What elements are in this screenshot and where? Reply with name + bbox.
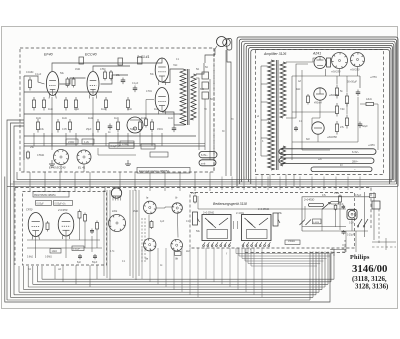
- svg-text:+6V/250: +6V/250: [329, 93, 339, 97]
- wire right verticals motor area: [364, 192, 366, 237]
- wire EL41 cathode drops: [146, 99, 154, 101]
- heater rail 6.3V busbar: [279, 149, 376, 155]
- mains switch contacts right: [358, 219, 362, 226]
- svg-text:150Ω: 150Ω: [157, 128, 163, 131]
- svg-text:1kΩ: 1kΩ: [62, 116, 67, 120]
- contact strip left: [203, 245, 205, 247]
- mains transformer T2 heater windings: [280, 146, 285, 166]
- svg-text:0.05µF: 0.05µF: [37, 203, 45, 205]
- tube V2 ECC40: [87, 72, 99, 96]
- power unit enclosure (dashed): [256, 50, 384, 175]
- svg-text:(3118, 3126,: (3118, 3126,: [352, 276, 387, 283]
- svg-text:1kΩ: 1kΩ: [114, 116, 119, 120]
- capacitor C4 electrolytic: [173, 126, 175, 129]
- svg-text:1kΩ: 1kΩ: [48, 107, 53, 111]
- svg-text:1kΩ: 1kΩ: [154, 107, 159, 111]
- svg-text:IIb: IIb: [175, 257, 179, 261]
- svg-text:800: 800: [200, 88, 205, 91]
- resistor EL41 cathode: [145, 117, 147, 119]
- svg-text:2×100k: 2×100k: [236, 212, 245, 215]
- resistor between wafers: [151, 220, 153, 222]
- amplifier chassis enclosure (dashed): [20, 48, 214, 172]
- svg-text:170Ω: 170Ω: [146, 90, 152, 93]
- svg-text:0.05M: 0.05M: [313, 222, 319, 224]
- output tap box 3: [202, 92, 209, 99]
- svg-text:0.1µF µF: 0.1µF µF: [111, 145, 121, 148]
- record changer outer enclosure (dashed): [15, 188, 371, 266]
- resistor R pot right: [339, 195, 341, 197]
- resistor R grid leak: [96, 221, 98, 223]
- electrolytic C6 32uF: [359, 122, 361, 125]
- tube socket S3 (AZ41 base): [332, 53, 348, 69]
- wire centre tap: [301, 70, 303, 150]
- cable plug P2: [111, 188, 121, 198]
- svg-text:1kΩ: 1kΩ: [88, 116, 93, 120]
- preamp label strip: [33, 192, 69, 198]
- wire HT secondary to rectifier: [286, 58, 317, 62]
- pickup preamp enclosure (dashed): [23, 192, 107, 266]
- wire HT rail top: [52, 58, 162, 72]
- wire bottom loom horizontals: [42, 278, 334, 280]
- svg-text:1kΩ: 1kΩ: [168, 116, 173, 120]
- speed switch left: [300, 220, 306, 226]
- loudspeaker jack P1: [217, 37, 227, 47]
- resistor box 14k: [50, 249, 61, 254]
- mains transformer T2 core: [276, 60, 278, 170]
- resistor R pot left: [194, 195, 196, 197]
- svg-text:A: A: [256, 114, 259, 118]
- svg-text:1µF: 1µF: [160, 220, 165, 223]
- wire transformer leads: [162, 69, 183, 83]
- svg-text:25µF: 25µF: [86, 128, 92, 131]
- svg-text:0.2V: 0.2V: [349, 223, 354, 225]
- svg-text:7kΩ: 7kΩ: [173, 64, 178, 67]
- mains transformer T2 primary: [268, 60, 275, 170]
- svg-text:0.5M: 0.5M: [334, 193, 339, 195]
- resistor R screen: [84, 213, 86, 215]
- wire loom fan drops (from control unit): [141, 248, 143, 279]
- tube socket S4 base: [351, 53, 365, 67]
- svg-text:0.02µF: 0.02µF: [73, 249, 81, 251]
- switch levers left: [205, 218, 213, 225]
- resistor row R7..R13: [37, 119, 39, 122]
- connector lug 6.3V (chassis A): [199, 152, 217, 158]
- capacitor C3: [109, 124, 111, 127]
- electrolytic can (chassis A): [127, 117, 143, 133]
- svg-text:1kΩ: 1kΩ: [36, 116, 41, 120]
- resistor R anode V6: [79, 210, 81, 212]
- svg-text:a+b: a+b: [201, 162, 206, 165]
- potentiometer P right: [273, 213, 278, 226]
- svg-text:ECC40: ECC40: [85, 53, 97, 57]
- svg-text:1kΩ: 1kΩ: [141, 116, 146, 120]
- wire bus branch down: [104, 186, 106, 192]
- junction cross on dashed bottom: [333, 249, 335, 256]
- wire drops power unit to bus: [261, 175, 263, 187]
- svg-text:0.25µF: 0.25µF: [347, 235, 355, 237]
- output tap box 2: [202, 82, 209, 89]
- svg-text:28V~: 28V~: [352, 159, 359, 163]
- mains transformer T2 HT secondary: [280, 62, 286, 118]
- output transformer T1 primary: [180, 69, 186, 125]
- wire sockets to rails: [339, 69, 341, 77]
- value box 2: [54, 201, 73, 206]
- svg-text:3146/00: 3146/00: [352, 263, 387, 275]
- electrolytic 8uF: [79, 254, 81, 256]
- svg-text:4V: 4V: [340, 165, 343, 167]
- motor M: [347, 209, 357, 219]
- wire bus line D: [7, 185, 398, 187]
- tube socket S1 (EF40/ECC40 base view): [54, 150, 69, 165]
- wire left riser bundle: [7, 120, 24, 300]
- svg-text:2×1400Ω: 2×1400Ω: [303, 199, 314, 202]
- wire bus line B: [13, 181, 395, 183]
- wire control unit top rail: [198, 208, 346, 210]
- ground chassis 2: [127, 160, 129, 164]
- wire loom left corner risers (to preamp bottom): [41, 266, 43, 279]
- indicator +6V/250 circle (upper): [314, 88, 326, 100]
- svg-text:Bedienungsgerät 3118: Bedienungsgerät 3118: [213, 202, 247, 206]
- switch wafer Ia: [144, 201, 157, 214]
- svg-text:47pF: 47pF: [338, 204, 344, 206]
- tube V4 EL41 (lower): [155, 88, 169, 112]
- wire bus ladder ticks right: [221, 177, 223, 191]
- resistor small motor: [335, 204, 337, 205]
- svg-text:8Ω: 8Ω: [210, 99, 213, 101]
- wire drops A to bus: [29, 172, 31, 191]
- svg-text:74Ω: 74Ω: [340, 108, 345, 111]
- svg-text:1MΩ: 1MΩ: [75, 68, 80, 71]
- wire anode couplings: [101, 75, 129, 84]
- wire socket drops: [60, 165, 62, 173]
- svg-text:+6V/250: +6V/250: [350, 69, 360, 72]
- wire right risers: [345, 231, 347, 252]
- svg-text:4kΩ: 4kΩ: [296, 88, 301, 91]
- svg-text:EF40: EF40: [44, 53, 53, 57]
- svg-text:14kΩ: 14kΩ: [52, 251, 58, 253]
- wire motor leads: [304, 206, 306, 219]
- svg-text:1kΩ: 1kΩ: [101, 107, 106, 111]
- svg-text:0.5M: 0.5M: [100, 68, 105, 71]
- wire link between boxes: [233, 221, 235, 229]
- choke 2x1400 ohm: [309, 203, 324, 206]
- switch wafer IIb: [171, 239, 183, 251]
- svg-text:0.05µF+1k: 0.05µF+1k: [55, 203, 67, 205]
- svg-text:CF50: CF50: [26, 208, 33, 212]
- small boxes with values (couplings): [66, 139, 78, 144]
- svg-text:AZ41: AZ41: [312, 52, 321, 56]
- svg-text:450mA: 450mA: [314, 102, 322, 105]
- svg-text:+6V/250: +6V/250: [327, 135, 337, 139]
- tube socket S2 (EL41 base view): [77, 150, 91, 164]
- wire preamp rails: [27, 239, 100, 241]
- output tap box 1: [202, 72, 209, 79]
- svg-text:0.5µF: 0.5µF: [355, 194, 362, 197]
- svg-text:150kΩ: 150kΩ: [288, 240, 295, 243]
- svg-text:5.6kΩ: 5.6kΩ: [27, 257, 33, 259]
- tube socket S5 (pickup): [109, 215, 126, 232]
- potentiometer P left: [193, 212, 198, 225]
- svg-text:0.5MΩ: 0.5MΩ: [37, 154, 44, 157]
- svg-text:1kΩ: 1kΩ: [74, 107, 79, 111]
- terminal box Rs: [370, 194, 376, 198]
- svg-text:220k: 220k: [112, 210, 118, 213]
- capacitor C coupling top rail: [79, 57, 84, 64]
- capacitor 0.02uF box: [72, 246, 84, 251]
- wire left edge vertical: [23, 76, 25, 160]
- electrolytic 50uF: [94, 254, 96, 256]
- svg-text:1.2k: 1.2k: [84, 140, 90, 144]
- svg-text:0.05: 0.05: [62, 128, 67, 131]
- svg-text:6.3V~: 6.3V~: [352, 150, 360, 154]
- svg-text:50+50µF: 50+50µF: [347, 81, 357, 84]
- svg-text:EL 41: EL 41: [78, 166, 86, 170]
- output transformer T1 secondary: [191, 74, 196, 120]
- switch wafer IIa: [144, 239, 156, 251]
- svg-text:50µF: 50µF: [130, 128, 136, 131]
- capacitor decoupling power unit: [295, 126, 297, 128]
- type label strip box: [137, 168, 190, 174]
- ground chassis (block A): [51, 160, 53, 164]
- resistor R HT divider: [366, 102, 374, 105]
- svg-text:+275V: +275V: [370, 76, 377, 79]
- capacitor C2: [134, 86, 136, 89]
- svg-text:Amplifier 3126: Amplifier 3126: [263, 52, 286, 56]
- wire dashed riser right: [378, 209, 380, 245]
- capacitor motor line: [342, 205, 344, 207]
- inner frame right box: [247, 230, 268, 239]
- wire V2 cathode drop: [92, 97, 94, 136]
- svg-text:5Ω: 5Ω: [196, 68, 199, 71]
- svg-text:32µF: 32µF: [362, 125, 368, 128]
- rectifier tube AZ41: [314, 57, 326, 69]
- svg-text:0.1µF: 0.1µF: [132, 82, 139, 85]
- wire power unit rails: [292, 75, 360, 77]
- svg-text:IIa: IIa: [145, 257, 149, 261]
- svg-text:EF40 ECC40: EF40 ECC40: [49, 166, 66, 170]
- wire grid bias rail: [24, 91, 112, 93]
- resistor left column lower: [27, 151, 29, 153]
- wire rectifier output: [325, 69, 327, 76]
- wire jack leads: [215, 46, 217, 55]
- resistor box 0.05M: [313, 219, 322, 224]
- electrolytic C5 50+50uF: [357, 90, 359, 93]
- wire V1 cathode drop: [51, 97, 53, 150]
- svg-text:2MΩ: 2MΩ: [133, 210, 138, 213]
- svg-text:2×CF50: 2×CF50: [57, 208, 68, 212]
- wire bus line C: [10, 183, 397, 185]
- wire cathode rail: [24, 135, 196, 137]
- connector lug 28V (chassis A): [199, 160, 216, 166]
- wire bus line A: [17, 172, 394, 179]
- cable loom around power unit (nested, open at bottom into bus): [237, 37, 398, 186]
- svg-text:240Ω: 240Ω: [68, 140, 74, 144]
- resistor R cathode V5: [47, 221, 49, 223]
- indicator +6V/250 circle (lower): [312, 122, 324, 134]
- terminal box below wafer: [175, 252, 182, 256]
- resistor pair right of V2: [104, 70, 106, 72]
- svg-text:35617/05/09 1950/51: 35617/05/09 1950/51: [34, 195, 56, 197]
- value box 1: [36, 201, 52, 206]
- switch bank box left: [202, 215, 231, 241]
- smoothing resistors power unit: [336, 85, 338, 88]
- value box row mid chassis: [109, 143, 134, 148]
- resistor screen feed: [307, 94, 309, 96]
- svg-text:0.1M: 0.1M: [191, 193, 196, 195]
- wire lamp feeds: [312, 100, 320, 128]
- svg-text:3128, 3136): 3128, 3136): [355, 284, 388, 291]
- svg-text:A2: A2: [57, 268, 62, 271]
- wire switch links: [148, 215, 150, 238]
- wire screen rail: [24, 113, 180, 115]
- small terminal box right: [372, 201, 380, 209]
- switch lever with arrow: [322, 203, 330, 210]
- switch wafer Ib: [172, 203, 182, 213]
- wire fan from control unit to right loom: [236, 248, 333, 254]
- svg-text:0.5MΩ: 0.5MΩ: [45, 257, 52, 259]
- pilot rail busbar: [311, 167, 372, 172]
- wire lower rail: [24, 143, 205, 145]
- capacitor C1: [122, 78, 124, 81]
- tube V6 UF41 (right): [58, 213, 74, 236]
- small box 150k (control unit): [285, 240, 300, 245]
- wire output taps down: [204, 99, 206, 150]
- capacitor 0.25uF: [343, 230, 345, 232]
- wire transformer taps: [261, 65, 268, 67]
- grid resistor R14: [29, 77, 31, 80]
- capacitor C pickup: [91, 229, 93, 231]
- inner frame left box: [207, 230, 228, 239]
- svg-text:0.1MΩ: 0.1MΩ: [26, 71, 34, 74]
- tube V1 EF40: [46, 72, 58, 96]
- svg-text:12kΩ: 12kΩ: [366, 98, 372, 101]
- svg-text:+245V: +245V: [368, 144, 375, 147]
- wire vertical drops in chassis: [33, 133, 35, 146]
- contact strip right: [242, 245, 244, 247]
- resistor pair between V1 V2: [67, 77, 69, 79]
- motor section frame: [302, 197, 370, 231]
- wire preamp drops to loom: [54, 265, 56, 279]
- svg-text:1kΩ: 1kΩ: [127, 107, 132, 111]
- svg-text:2×0.05MΩ: 2×0.05MΩ: [203, 212, 214, 215]
- output transformer T1 core: [187, 69, 189, 125]
- switch levers right: [245, 218, 253, 225]
- control unit enclosure (dashed): [190, 193, 355, 249]
- svg-text:Philips: Philips: [350, 254, 370, 261]
- svg-text:6.3V~: 6.3V~: [201, 154, 208, 157]
- tube V5 UF41 (left): [28, 213, 43, 237]
- heater rail 28V busbar: [279, 158, 374, 163]
- stadium cap 0.1uF: [331, 201, 339, 204]
- svg-text:0.1µF: 0.1µF: [35, 73, 42, 76]
- svg-text:5Ω: 5Ω: [205, 67, 208, 69]
- wire bottom-most long run: [5, 177, 330, 303]
- tube V3 EL41 (upper): [155, 58, 169, 82]
- wire loom verticals (mid): [103, 190, 105, 276]
- wire lower rail 2: [98, 154, 136, 156]
- resistor row R1..R6: [33, 97, 35, 100]
- svg-text:2×0.05MΩ: 2×0.05MΩ: [258, 208, 269, 211]
- svg-text:50µF: 50µF: [92, 262, 98, 264]
- switch bank box right: [242, 215, 272, 241]
- svg-text:A1: A1: [27, 268, 32, 271]
- svg-text:8µF: 8µF: [77, 262, 82, 264]
